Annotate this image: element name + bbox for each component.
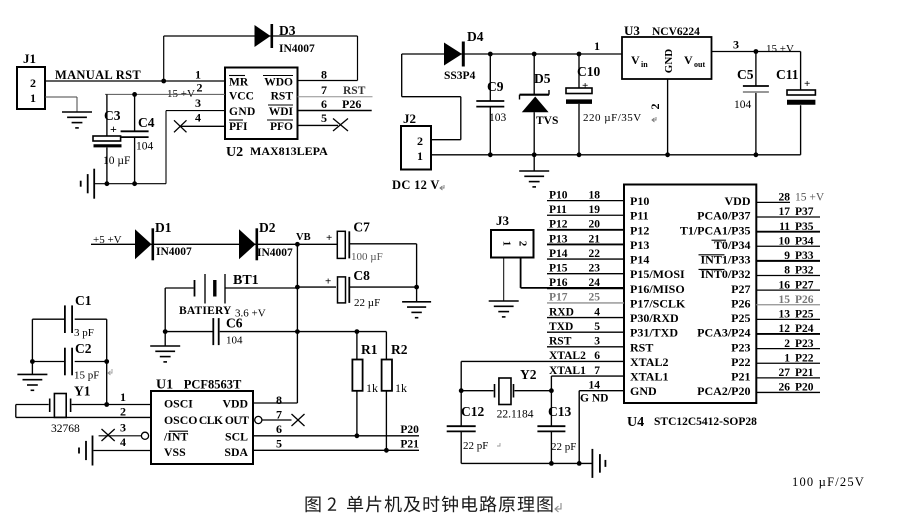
svg-text:P34: P34 — [795, 235, 814, 247]
svg-text:8: 8 — [321, 68, 327, 82]
svg-text:1k: 1k — [395, 381, 407, 395]
svg-text:RXD: RXD — [549, 306, 574, 318]
svg-text:4: 4 — [120, 435, 126, 449]
svg-text:15 pF: 15 pF — [74, 370, 99, 382]
svg-text:IN4007: IN4007 — [279, 43, 315, 55]
svg-text:SCL: SCL — [225, 430, 248, 444]
svg-text:22 µF: 22 µF — [354, 297, 380, 309]
svg-text:+: + — [582, 80, 588, 92]
svg-text:out: out — [694, 60, 705, 69]
svg-text:1: 1 — [417, 149, 423, 163]
svg-text:D5: D5 — [534, 71, 551, 86]
svg-text:P20: P20 — [400, 424, 419, 436]
svg-text:8: 8 — [276, 393, 282, 407]
svg-text:SS3P4: SS3P4 — [444, 70, 476, 82]
svg-text:RST: RST — [549, 336, 572, 348]
svg-text:104: 104 — [136, 141, 154, 153]
svg-text:6: 6 — [276, 422, 282, 436]
svg-text:P30/RXD: P30/RXD — [630, 311, 679, 325]
svg-text:V: V — [631, 53, 640, 67]
svg-text:22 pF: 22 pF — [463, 440, 488, 452]
svg-text:P15/MOSI: P15/MOSI — [630, 267, 685, 281]
svg-text:P27: P27 — [795, 279, 814, 291]
svg-text:P11: P11 — [630, 209, 649, 223]
svg-text:P12: P12 — [630, 223, 649, 237]
svg-text:P35: P35 — [795, 221, 814, 233]
svg-text:1: 1 — [30, 91, 36, 105]
svg-text:P11: P11 — [549, 204, 567, 216]
svg-text:100 µF: 100 µF — [351, 251, 383, 263]
svg-text:100 µF/25V: 100 µF/25V — [792, 475, 865, 489]
svg-text:PCF8563T: PCF8563T — [184, 378, 242, 392]
svg-text:U4: U4 — [627, 415, 644, 430]
svg-text:20: 20 — [589, 219, 601, 231]
svg-text:22 pF: 22 pF — [551, 441, 576, 453]
svg-text:13: 13 — [779, 309, 791, 321]
svg-text:SDA: SDA — [224, 445, 248, 459]
svg-text:P20: P20 — [795, 382, 814, 394]
svg-text:27: 27 — [779, 367, 791, 379]
svg-text:C2: C2 — [75, 341, 92, 356]
svg-text:C13: C13 — [548, 404, 571, 419]
svg-text:25: 25 — [589, 292, 601, 304]
svg-text:P10: P10 — [549, 189, 568, 201]
svg-text:IN4007: IN4007 — [156, 246, 192, 258]
svg-text:VDD: VDD — [725, 194, 751, 208]
svg-text:7: 7 — [594, 365, 600, 377]
svg-text:P22: P22 — [795, 352, 814, 364]
svg-text:STC12C5412-SOP28: STC12C5412-SOP28 — [654, 416, 757, 428]
svg-text:RST: RST — [271, 91, 294, 103]
svg-text:WDO: WDO — [264, 77, 293, 89]
svg-text:5: 5 — [276, 437, 282, 451]
svg-text:XTAL1: XTAL1 — [549, 365, 586, 377]
svg-text:P16/MISO: P16/MISO — [630, 282, 685, 296]
svg-text:3: 3 — [733, 38, 739, 52]
svg-text:XTAL2: XTAL2 — [630, 355, 668, 369]
svg-text:U1: U1 — [156, 378, 173, 393]
svg-text:220 µF/35V: 220 µF/35V — [583, 112, 642, 124]
svg-text:PFO: PFO — [270, 121, 293, 133]
svg-text:2: 2 — [784, 338, 790, 350]
svg-text:6: 6 — [594, 350, 600, 362]
svg-text:Y1: Y1 — [74, 384, 91, 399]
svg-text:P15: P15 — [549, 263, 568, 275]
svg-text:C1: C1 — [75, 293, 92, 308]
svg-text:4: 4 — [195, 111, 201, 125]
svg-text:19: 19 — [589, 204, 601, 216]
svg-text:6: 6 — [321, 97, 327, 111]
svg-text:U3: U3 — [624, 23, 640, 38]
svg-text:Y2: Y2 — [520, 367, 537, 382]
svg-text:2: 2 — [648, 104, 662, 110]
svg-text:GND: GND — [630, 384, 657, 398]
svg-text:2: 2 — [517, 241, 529, 247]
svg-text:15: 15 — [779, 294, 791, 306]
svg-text:TXD: TXD — [549, 321, 573, 333]
svg-text:J1: J1 — [23, 51, 36, 66]
svg-text:+: + — [804, 78, 810, 90]
svg-text:P37: P37 — [795, 206, 814, 218]
svg-text:2: 2 — [197, 81, 203, 95]
svg-text:P26: P26 — [342, 97, 361, 111]
svg-text:18: 18 — [589, 189, 601, 201]
svg-text:+: + — [110, 122, 117, 136]
svg-text:32768: 32768 — [51, 423, 80, 435]
svg-text:OSCO: OSCO — [164, 413, 197, 427]
svg-text:14: 14 — [589, 379, 601, 391]
svg-text:C10: C10 — [577, 64, 600, 79]
svg-text:16: 16 — [779, 279, 791, 291]
svg-text:C12: C12 — [461, 404, 484, 419]
svg-text:P31/TXD: P31/TXD — [630, 326, 678, 340]
svg-text:3: 3 — [195, 96, 201, 110]
svg-text:VB: VB — [296, 232, 311, 243]
svg-text:PCA2/P20: PCA2/P20 — [697, 384, 750, 398]
svg-text:12: 12 — [779, 323, 791, 335]
svg-text:4: 4 — [594, 306, 600, 318]
svg-text:+: + — [326, 232, 332, 244]
svg-text:C5: C5 — [737, 67, 754, 82]
svg-text:26: 26 — [779, 382, 791, 394]
svg-text:J2: J2 — [403, 111, 416, 126]
svg-text:U2: U2 — [226, 145, 243, 160]
svg-text:VSS: VSS — [164, 445, 186, 459]
svg-text:C7: C7 — [353, 220, 370, 235]
svg-text:TVS: TVS — [536, 115, 558, 127]
svg-text:P10: P10 — [630, 194, 649, 208]
svg-text:7: 7 — [321, 83, 327, 97]
svg-text:P17: P17 — [549, 292, 568, 304]
svg-text:D1: D1 — [155, 220, 172, 235]
svg-text:15 +V: 15 +V — [795, 192, 825, 204]
svg-text:C11: C11 — [776, 67, 799, 82]
svg-text:P13: P13 — [549, 233, 568, 245]
svg-text:10: 10 — [779, 235, 791, 247]
svg-text:P33: P33 — [795, 250, 814, 262]
svg-text:11: 11 — [779, 221, 790, 233]
svg-text:C3: C3 — [104, 108, 121, 123]
svg-text:104: 104 — [734, 99, 752, 111]
svg-text:7: 7 — [276, 408, 282, 422]
svg-text:2: 2 — [417, 134, 423, 148]
svg-text:2: 2 — [30, 76, 36, 90]
svg-text:P17/SCLK: P17/SCLK — [630, 296, 686, 310]
svg-text:T1/PCA1/P35: T1/PCA1/P35 — [680, 223, 751, 237]
svg-text:G ND: G ND — [580, 393, 608, 405]
svg-text:GND: GND — [663, 49, 675, 74]
svg-text:R1: R1 — [361, 342, 378, 357]
svg-text:23: 23 — [589, 263, 601, 275]
svg-text:P13: P13 — [630, 238, 649, 252]
svg-text:D4: D4 — [467, 29, 484, 44]
svg-text:RST: RST — [630, 340, 653, 354]
svg-text:17: 17 — [779, 206, 791, 218]
svg-text:5: 5 — [594, 321, 600, 333]
svg-text:1: 1 — [195, 68, 201, 82]
svg-text:8: 8 — [784, 265, 790, 277]
svg-text:P27: P27 — [731, 282, 750, 296]
svg-text:P21: P21 — [400, 439, 419, 451]
svg-text:1: 1 — [501, 241, 513, 247]
svg-text:R2: R2 — [391, 342, 408, 357]
svg-text:BT1: BT1 — [233, 273, 259, 288]
svg-text:DC 12 V: DC 12 V — [392, 178, 440, 192]
svg-text:22.1184: 22.1184 — [497, 409, 534, 421]
svg-text:P14: P14 — [549, 248, 568, 260]
svg-text:C6: C6 — [226, 316, 243, 331]
svg-text:1: 1 — [594, 39, 600, 53]
svg-text:P32: P32 — [795, 265, 814, 277]
svg-text:XTAL1: XTAL1 — [630, 370, 668, 384]
svg-text:1: 1 — [120, 390, 126, 404]
svg-text:PCA0/P37: PCA0/P37 — [697, 209, 750, 223]
svg-text:WDI: WDI — [269, 106, 294, 118]
svg-text:PFI: PFI — [229, 121, 248, 133]
svg-text:P26: P26 — [731, 296, 750, 310]
svg-text:XTAL2: XTAL2 — [549, 350, 586, 362]
svg-text:PCA3/P24: PCA3/P24 — [697, 326, 750, 340]
svg-text:1: 1 — [784, 352, 790, 364]
svg-text:C8: C8 — [353, 268, 370, 283]
svg-text:NCV6224: NCV6224 — [652, 26, 700, 38]
svg-text:22: 22 — [589, 248, 601, 260]
svg-text:P23: P23 — [731, 340, 750, 354]
svg-text:OSCI: OSCI — [164, 397, 193, 411]
svg-text:3: 3 — [120, 421, 126, 435]
svg-text:D2: D2 — [259, 220, 276, 235]
svg-text:10 µF: 10 µF — [103, 155, 130, 167]
svg-text:5: 5 — [321, 111, 327, 125]
svg-text:VCC: VCC — [229, 91, 254, 103]
svg-text:1k: 1k — [366, 381, 378, 395]
svg-text:21: 21 — [589, 233, 601, 245]
svg-text:3: 3 — [594, 336, 600, 348]
svg-text:P25: P25 — [731, 311, 750, 325]
svg-text:P21: P21 — [795, 367, 814, 379]
svg-text:P22: P22 — [731, 355, 750, 369]
svg-text:2: 2 — [120, 405, 126, 419]
svg-text:in: in — [641, 60, 648, 69]
svg-text:P12: P12 — [549, 219, 568, 231]
svg-text:GND: GND — [229, 106, 256, 118]
svg-text:BATIERY: BATIERY — [179, 305, 232, 317]
svg-text:VDD: VDD — [222, 397, 248, 411]
svg-text:C9: C9 — [487, 79, 504, 94]
svg-text:MAX813LEPA: MAX813LEPA — [250, 144, 328, 158]
svg-text:+: + — [325, 276, 331, 288]
svg-text:P25: P25 — [795, 309, 814, 321]
svg-text:D3: D3 — [279, 23, 296, 38]
svg-text:9: 9 — [784, 250, 790, 262]
svg-text:103: 103 — [489, 112, 507, 124]
svg-text:3 pF: 3 pF — [74, 327, 94, 339]
svg-text:J3: J3 — [496, 213, 510, 228]
svg-text:IN4007: IN4007 — [257, 247, 293, 259]
svg-text:P24: P24 — [795, 323, 814, 335]
svg-text:C4: C4 — [138, 115, 155, 130]
svg-text:P23: P23 — [795, 338, 814, 350]
svg-text:P14: P14 — [630, 253, 649, 267]
svg-text:RST: RST — [343, 85, 366, 97]
svg-text:CLK OUT: CLK OUT — [199, 414, 249, 427]
svg-text:MANUAL RST: MANUAL RST — [55, 68, 141, 82]
svg-text:P26: P26 — [795, 294, 814, 306]
svg-text:V: V — [684, 53, 693, 67]
svg-text:28: 28 — [779, 192, 791, 204]
svg-text:P21: P21 — [731, 370, 750, 384]
svg-text:MR: MR — [229, 77, 249, 89]
svg-text:104: 104 — [226, 335, 243, 347]
svg-text:15 +V: 15 +V — [766, 43, 794, 55]
